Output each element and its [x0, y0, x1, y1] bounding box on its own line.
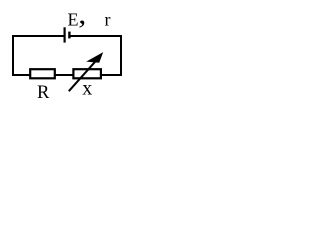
- wire: bottom-right segment (rheostat to right corner): [102, 74, 123, 76]
- wire: top-left segment (left corner to battery long plate): [12, 35, 65, 37]
- svg-text:r: r: [105, 9, 111, 29]
- rheostat x : arrow shaft: [69, 60, 97, 91]
- battery E,r : long plate (positive terminal): [63, 27, 65, 42]
- wire: top-right segment (battery short plate to right corner): [69, 35, 122, 37]
- wire: bottom-middle segment (R to rheostat x): [56, 74, 74, 76]
- svg-text:E: E: [68, 9, 79, 29]
- wire: right vertical side: [120, 35, 122, 76]
- svg-text:x: x: [82, 78, 92, 100]
- rheostat x (box): [73, 69, 101, 78]
- rheostat x : arrow head: [86, 52, 103, 63]
- wire: bottom-left segment (left corner to resistor R): [12, 74, 30, 76]
- background: [0, 0, 133, 108]
- svg-text:,: ,: [78, 0, 86, 30]
- battery E,r : short plate (negative terminal): [68, 32, 70, 39]
- resistor R (box): [30, 69, 55, 78]
- wire: left vertical side: [12, 35, 14, 76]
- svg-text:R: R: [37, 83, 50, 103]
